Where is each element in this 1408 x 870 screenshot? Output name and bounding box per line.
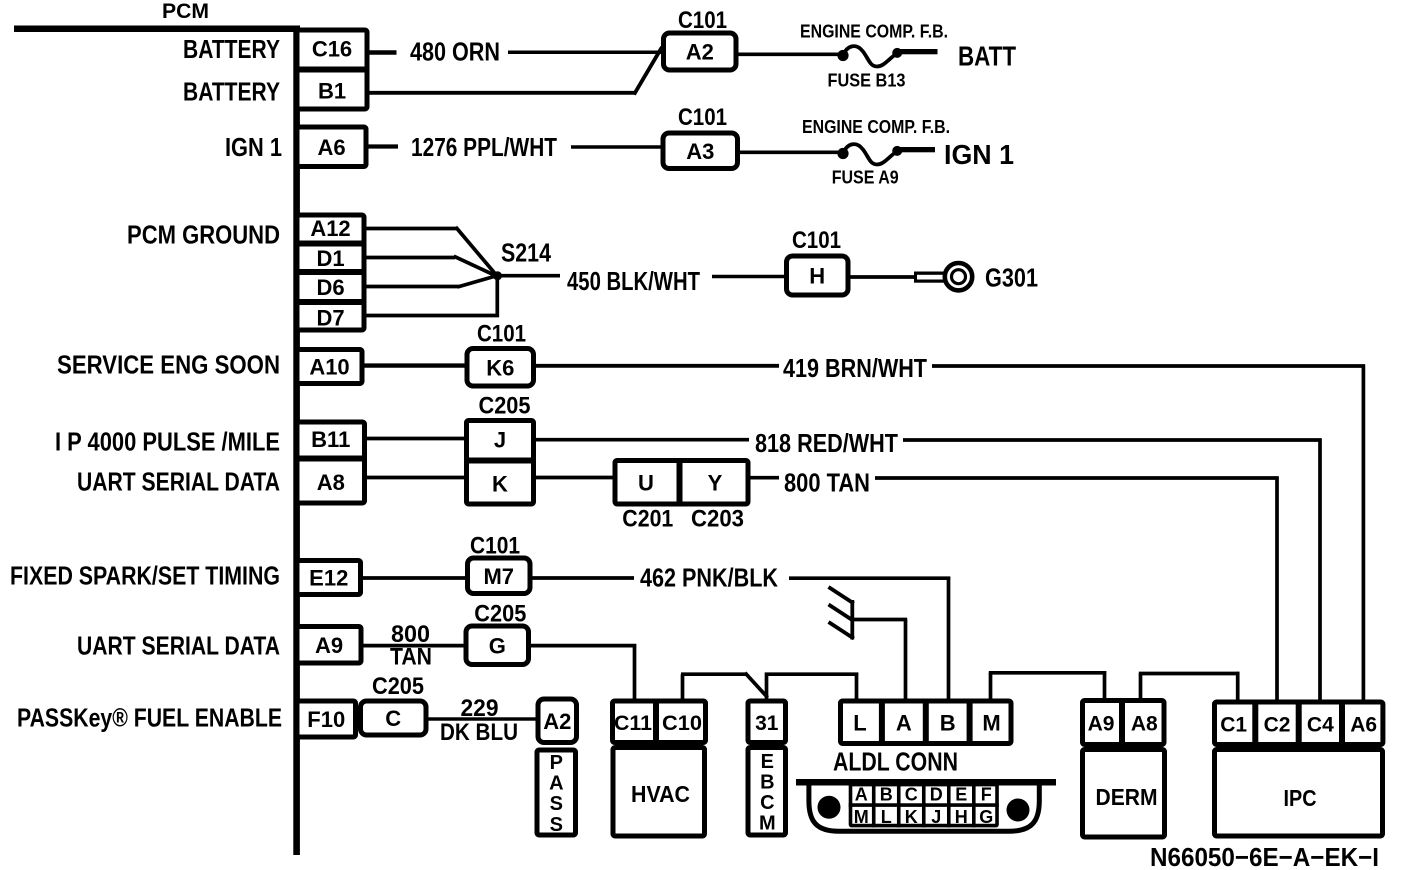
svg-text:L: L — [853, 710, 866, 735]
svg-text:B1: B1 — [318, 79, 346, 104]
svg-text:B: B — [940, 710, 956, 735]
svg-text:450 BLK/WHT: 450 BLK/WHT — [567, 266, 700, 296]
svg-text:FIXED SPARK/SET TIMING: FIXED SPARK/SET TIMING — [10, 561, 280, 591]
svg-text:C: C — [905, 784, 918, 804]
svg-text:M: M — [982, 710, 1000, 735]
svg-text:C11: C11 — [614, 712, 652, 735]
svg-text:G: G — [979, 807, 993, 827]
svg-text:DERM: DERM — [1096, 784, 1158, 810]
svg-text:A: A — [855, 784, 868, 804]
svg-text:S214: S214 — [501, 238, 551, 268]
svg-text:A6: A6 — [1350, 713, 1377, 736]
svg-text:A2: A2 — [543, 709, 571, 734]
svg-text:TAN: TAN — [390, 644, 432, 671]
svg-text:D6: D6 — [316, 275, 344, 300]
svg-text:A8: A8 — [317, 470, 345, 495]
svg-text:P: P — [550, 752, 563, 774]
svg-text:IPC: IPC — [1284, 785, 1317, 811]
svg-text:419 BRN/WHT: 419 BRN/WHT — [783, 353, 927, 383]
svg-text:C10: C10 — [662, 712, 702, 735]
svg-text:A9: A9 — [315, 633, 343, 658]
svg-text:A2: A2 — [686, 40, 714, 65]
svg-text:C101: C101 — [792, 227, 841, 254]
svg-text:IGN 1: IGN 1 — [225, 132, 282, 162]
svg-text:G: G — [489, 633, 506, 658]
svg-text:F: F — [981, 784, 992, 804]
svg-text:UART SERIAL DATA: UART SERIAL DATA — [77, 467, 280, 497]
svg-text:A: A — [549, 773, 563, 795]
svg-text:A6: A6 — [317, 135, 345, 160]
svg-text:D: D — [930, 784, 943, 804]
svg-text:800 TAN: 800 TAN — [784, 468, 870, 498]
svg-text:818 RED/WHT: 818 RED/WHT — [755, 428, 898, 458]
svg-text:ALDL CONN: ALDL CONN — [833, 747, 958, 777]
svg-text:J: J — [494, 428, 506, 453]
svg-text:1276 PPL/WHT: 1276 PPL/WHT — [411, 132, 557, 162]
svg-text:F10: F10 — [307, 707, 345, 732]
svg-text:D7: D7 — [316, 305, 344, 330]
svg-text:PASSKey® FUEL ENABLE: PASSKey® FUEL ENABLE — [17, 703, 282, 733]
svg-text:FUSE A9: FUSE A9 — [832, 168, 899, 188]
svg-text:C4: C4 — [1307, 713, 1334, 736]
svg-text:C: C — [760, 792, 774, 814]
svg-text:C101: C101 — [678, 7, 727, 34]
svg-text:N66050−6E−A−EK−I: N66050−6E−A−EK−I — [1150, 842, 1379, 870]
svg-text:H: H — [955, 807, 968, 827]
svg-text:M: M — [759, 813, 776, 835]
svg-text:A8: A8 — [1131, 713, 1158, 736]
svg-text:E: E — [955, 784, 967, 804]
svg-text:C2: C2 — [1264, 713, 1291, 736]
svg-text:C101: C101 — [470, 533, 520, 560]
svg-text:B: B — [760, 772, 774, 794]
svg-text:BATT: BATT — [958, 41, 1016, 72]
svg-text:C16: C16 — [312, 37, 352, 62]
svg-text:E12: E12 — [309, 566, 348, 591]
svg-text:K6: K6 — [486, 355, 514, 380]
svg-text:C1: C1 — [1220, 713, 1247, 736]
svg-text:A12: A12 — [310, 216, 350, 241]
svg-text:PCM GROUND: PCM GROUND — [127, 220, 280, 250]
svg-text:C: C — [385, 706, 401, 731]
svg-text:A10: A10 — [309, 355, 349, 380]
svg-text:ENGINE COMP. F.B.: ENGINE COMP. F.B. — [800, 22, 948, 42]
svg-text:M: M — [854, 807, 869, 827]
svg-text:C203: C203 — [691, 506, 744, 533]
svg-text:U: U — [638, 471, 654, 496]
svg-text:PCM: PCM — [162, 0, 209, 23]
svg-text:K: K — [492, 472, 508, 497]
svg-text:J: J — [931, 807, 941, 827]
svg-text:S: S — [550, 793, 563, 815]
svg-text:C205: C205 — [474, 601, 526, 628]
svg-text:31: 31 — [755, 712, 779, 735]
svg-text:B11: B11 — [311, 427, 350, 452]
svg-text:B: B — [880, 784, 893, 804]
svg-text:A3: A3 — [686, 139, 714, 164]
svg-text:ENGINE COMP. F.B.: ENGINE COMP. F.B. — [802, 117, 950, 137]
svg-text:SERVICE ENG SOON: SERVICE ENG SOON — [57, 350, 280, 380]
svg-text:L: L — [881, 807, 892, 827]
svg-text:462 PNK/BLK: 462 PNK/BLK — [640, 563, 778, 593]
svg-text:DK BLU: DK BLU — [440, 719, 518, 746]
svg-text:C205: C205 — [479, 393, 531, 420]
svg-text:A9: A9 — [1088, 713, 1115, 736]
svg-text:S: S — [550, 814, 563, 836]
svg-text:G301: G301 — [985, 263, 1038, 293]
svg-text:C101: C101 — [678, 104, 727, 131]
svg-text:BATTERY: BATTERY — [183, 77, 280, 107]
svg-text:D1: D1 — [316, 246, 344, 271]
svg-text:IGN 1: IGN 1 — [944, 139, 1014, 170]
svg-text:HVAC: HVAC — [631, 781, 690, 807]
svg-text:C201: C201 — [622, 506, 673, 533]
svg-text:BATTERY: BATTERY — [183, 34, 280, 64]
svg-text:UART SERIAL DATA: UART SERIAL DATA — [77, 631, 280, 661]
svg-text:H: H — [809, 264, 825, 289]
svg-text:Y: Y — [708, 471, 723, 496]
svg-text:FUSE B13: FUSE B13 — [828, 71, 906, 91]
svg-text:I P 4000 PULSE /MILE: I P 4000 PULSE /MILE — [55, 427, 280, 457]
svg-text:A: A — [896, 710, 912, 735]
svg-text:C101: C101 — [477, 321, 526, 348]
svg-text:480 ORN: 480 ORN — [410, 37, 500, 67]
svg-text:C205: C205 — [372, 673, 424, 700]
svg-text:M7: M7 — [483, 564, 514, 589]
svg-text:E: E — [761, 751, 774, 773]
svg-text:K: K — [905, 807, 918, 827]
